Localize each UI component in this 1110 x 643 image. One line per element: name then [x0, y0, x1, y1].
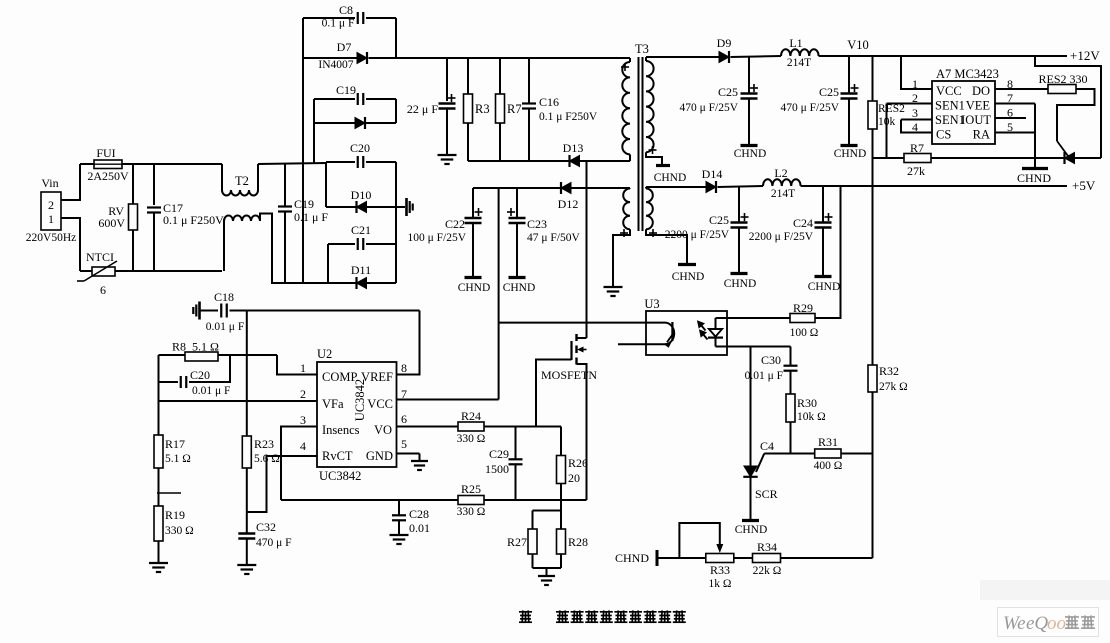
svg-text:2: 2: [48, 198, 54, 212]
svg-text:47 μ F/50V: 47 μ F/50V: [527, 232, 581, 244]
svg-text:470 μ F/25V: 470 μ F/25V: [780, 102, 839, 114]
svg-text:330 Ω: 330 Ω: [165, 525, 194, 537]
svg-text:CHND: CHND: [503, 282, 536, 294]
wire Vin pin1 to bottom rail: [61, 218, 80, 271]
wire R31 row: [764, 453, 814, 455]
svg-text:R24: R24: [461, 409, 481, 423]
svg-text:C28: C28: [409, 507, 429, 521]
svg-text:R33: R33: [710, 563, 730, 577]
light arrows in U3: [698, 322, 707, 340]
svg-text:C16: C16: [539, 95, 559, 109]
svg-text:RES2 330: RES2 330: [1038, 72, 1087, 86]
svg-text:R8 5.1 Ω: R8 5.1 Ω: [172, 340, 219, 354]
diode D14: [706, 182, 716, 193]
svg-text:C20: C20: [350, 141, 370, 155]
svg-text:IN4007: IN4007: [318, 59, 353, 71]
wire vertical C19a loop: [313, 99, 315, 163]
svg-text:R27: R27: [507, 535, 527, 549]
svg-text:27k: 27k: [907, 164, 925, 178]
svg-text:2200 μ F/25V: 2200 μ F/25V: [749, 231, 814, 243]
resistor R26 20: [560, 427, 562, 456]
resistor R25 330: [458, 496, 484, 505]
winding T3 lower-left: [629, 187, 631, 190]
svg-text:D14: D14: [702, 167, 723, 181]
svg-text:D10: D10: [351, 188, 372, 202]
chassis ground T3 upper secondary: [656, 164, 670, 167]
svg-text:R32: R32: [879, 364, 899, 378]
optocoupler U3: [646, 311, 727, 355]
capacitor C20 0.01uF comp: [159, 381, 179, 383]
wire bridge left vertical upper: [325, 162, 327, 207]
svg-text:D13: D13: [563, 141, 584, 155]
svg-text:MOSFETN: MOSFETN: [541, 368, 597, 382]
pin 3 SEN1 wire: [901, 119, 932, 121]
svg-text:CHND: CHND: [615, 551, 649, 565]
resistor RES2 10k: [872, 56, 874, 101]
svg-text:100 μ F/25V: 100 μ F/25V: [407, 232, 466, 244]
wire vertical bus left of ladder: [302, 18, 304, 283]
connector Vin 220V input: [41, 192, 61, 230]
svg-text:10k Ω: 10k Ω: [797, 411, 826, 423]
svg-text:eQ: eQ: [1026, 613, 1048, 634]
diode D13: [568, 155, 570, 167]
varistor RV 600V: [132, 164, 134, 204]
svg-text:330 Ω: 330 Ω: [457, 433, 486, 445]
ground under C32: [237, 564, 256, 566]
diode D12: [560, 182, 562, 194]
diode D7 IN4007: [303, 57, 357, 59]
capacitor C25 2200uF/25V: [738, 186, 740, 222]
wire Insencs pin3 down: [281, 427, 317, 501]
resistor R8 5.1: [159, 354, 186, 356]
resistors R27 R28 parallel: [560, 500, 562, 511]
svg-text:330 Ω: 330 Ω: [457, 506, 486, 518]
svg-text:27k Ω: 27k Ω: [879, 381, 908, 393]
wire C18 to VREF pin8: [397, 311, 420, 375]
resistor R7 27k: [873, 157, 905, 159]
capacitor C21 bridge: [328, 243, 355, 245]
wire R8 to COMP pin1: [277, 355, 317, 375]
capacitor C24 2200uF/25V: [822, 186, 824, 222]
wire left divider vertical: [158, 355, 160, 435]
svg-text:D9: D9: [717, 36, 732, 50]
pin 6 IOUT stub: [995, 117, 1026, 119]
pin 7 VEE wire: [995, 103, 1035, 105]
svg-text:RA: RA: [973, 128, 990, 142]
ground under R27 R28: [546, 568, 548, 576]
capacitor C25 470uF/25V first: [748, 57, 750, 93]
svg-text:R30: R30: [797, 396, 817, 410]
svg-text:C19: C19: [294, 197, 314, 211]
capacitor C25 470uF/25V second: [848, 56, 850, 93]
chassis ground at D10: [396, 206, 405, 208]
winding T3 upper-right secondary: [645, 57, 647, 61]
capacitor 22uF electrolytic: [446, 58, 448, 101]
wire gate drive jog: [536, 360, 572, 427]
svg-text:22 μ F: 22 μ F: [407, 102, 438, 116]
svg-text:U3: U3: [644, 297, 659, 311]
svg-text:VEE: VEE: [966, 99, 991, 113]
svg-text:1: 1: [48, 212, 54, 226]
wire VEE to CHND: [1034, 104, 1036, 168]
capacitor C19a: [314, 98, 355, 100]
resistor R32 27k: [872, 186, 874, 365]
svg-text:6: 6: [1007, 106, 1013, 120]
svg-text:SEN1: SEN1: [935, 99, 965, 113]
svg-text:T3: T3: [635, 42, 649, 56]
svg-text:220V50Hz: 220V50Hz: [26, 232, 76, 244]
svg-text:1k Ω: 1k Ω: [709, 578, 732, 590]
wire SCR cathode to CHND: [750, 477, 752, 519]
wire R29 branch from +5V rail: [815, 186, 841, 318]
wire top rail to T2: [122, 163, 222, 165]
svg-text:CHND: CHND: [1017, 171, 1051, 185]
svg-text:VO: VO: [374, 423, 392, 437]
gate diagonal of crowbar SCR: [1057, 141, 1068, 156]
resistor R23 5.6: [242, 436, 251, 468]
svg-text:T2: T2: [235, 174, 249, 188]
wire RvCT pin4 jog: [247, 456, 317, 512]
diode below C19a: [314, 122, 355, 124]
svg-text:L1: L1: [789, 36, 802, 50]
svg-text:CHND: CHND: [458, 282, 491, 294]
svg-text:GND: GND: [366, 449, 393, 463]
svg-text:22k Ω: 22k Ω: [753, 565, 782, 577]
resistor R24 330: [458, 422, 484, 431]
svg-text:C21: C21: [351, 223, 371, 237]
capacitor C18 0.01uF: [198, 302, 201, 320]
svg-text:R28: R28: [568, 535, 588, 549]
svg-text:DO: DO: [972, 84, 990, 98]
svg-text:214T: 214T: [787, 57, 811, 69]
svg-text:D12: D12: [558, 197, 579, 211]
wire +12V branch to SCR anode: [1035, 56, 1101, 158]
svg-text:6: 6: [100, 283, 106, 297]
svg-text:CHND: CHND: [834, 148, 867, 160]
svg-text:R23: R23: [254, 437, 274, 451]
svg-text:600V: 600V: [98, 216, 125, 230]
capacitor C16 0.1uF250V: [528, 58, 530, 103]
svg-text:0.01 μ F: 0.01 μ F: [192, 385, 230, 397]
svg-text:SCR: SCR: [755, 487, 778, 501]
svg-text:C30: C30: [761, 353, 781, 367]
wire VO pin6 row: [397, 426, 459, 428]
svg-text:Insencs: Insencs: [322, 423, 360, 437]
ground under C28: [390, 534, 409, 536]
capacitor C32 470uF: [238, 532, 255, 535]
svg-text:C23: C23: [527, 217, 547, 231]
svg-text:D7: D7: [337, 40, 352, 54]
svg-text:R19: R19: [165, 508, 185, 522]
svg-text:470 μ F: 470 μ F: [256, 537, 292, 549]
svg-text:214T: 214T: [771, 188, 795, 200]
svg-text:1: 1: [300, 361, 306, 375]
svg-text:5.1 Ω: 5.1 Ω: [165, 453, 191, 465]
capacitor C23 47uF/50V: [516, 188, 518, 218]
resistor R34 22k: [753, 554, 781, 563]
resistor R19 330: [154, 506, 163, 541]
wire R17 to R19 with stub: [158, 468, 160, 506]
fuse FUI 2A250V: [80, 163, 94, 165]
svg-text:R7: R7: [507, 102, 522, 116]
resistor RES2 330: [1048, 85, 1076, 94]
wire +12V rail from T3: [646, 56, 719, 58]
svg-text:C24: C24: [793, 216, 813, 230]
wire VCC pin7 row: [397, 399, 499, 401]
svg-text:8: 8: [1007, 77, 1013, 91]
winding T3 primary upper-left: [629, 58, 631, 62]
svg-text:+12V: +12V: [1070, 48, 1100, 63]
svg-text:R3: R3: [475, 102, 490, 116]
svg-text:VCC: VCC: [936, 84, 962, 98]
wire U3 cathode row: [727, 346, 791, 348]
pin 8 DO wire: [995, 88, 1048, 90]
ground T3 lower-left winding: [604, 286, 623, 288]
chassis ground T3 lower secondary: [678, 263, 696, 266]
svg-text:0.1 μ F: 0.1 μ F: [322, 18, 355, 30]
svg-text:3: 3: [912, 106, 918, 120]
svg-text:5: 5: [401, 437, 407, 451]
pin 1 VCC wire: [901, 56, 932, 89]
op-amp U1 A7 MC3423 supervisor IC: [932, 81, 995, 144]
svg-text:100 Ω: 100 Ω: [790, 327, 819, 339]
svg-text:U2: U2: [317, 347, 332, 361]
svg-text:2: 2: [300, 387, 306, 401]
svg-text:CHND: CHND: [735, 524, 768, 536]
svg-text:VFa: VFa: [322, 397, 344, 411]
svg-text:0.01: 0.01: [409, 521, 430, 535]
svg-text:CHND: CHND: [654, 172, 687, 184]
svg-text:FUI: FUI: [96, 146, 115, 160]
wire bridge right vertical: [395, 162, 397, 283]
svg-text:2: 2: [912, 91, 918, 105]
svg-text:7: 7: [1007, 91, 1013, 105]
svg-text:NTCI: NTCI: [86, 250, 114, 264]
ground at 22uF: [438, 154, 457, 156]
wire T2 bottom to lower rail: [260, 214, 303, 284]
LED of U3: [715, 318, 717, 329]
wire top rail T2 to bridge block: [258, 163, 326, 164]
capacitor C22 100uF/25V: [472, 188, 474, 218]
svg-text:4: 4: [912, 120, 918, 134]
svg-text:C8: C8: [339, 3, 353, 17]
svg-text:1: 1: [912, 77, 918, 91]
caption: [519, 610, 686, 623]
svg-text:R34: R34: [757, 540, 777, 554]
svg-text:C25: C25: [709, 213, 729, 227]
wire GND pin5 to ground: [397, 453, 420, 455]
svg-text:R26: R26: [568, 456, 588, 470]
core T3: [638, 57, 640, 231]
svg-text:1500: 1500: [485, 462, 509, 476]
capacitor C19 0.1uF X-cap: [284, 163, 286, 206]
wire snubber row to T3 primary bottom: [468, 160, 569, 162]
svg-text:Vin: Vin: [41, 176, 58, 190]
wire C18 junction down to R23: [246, 311, 248, 437]
wire MOSFET drain vertical: [586, 161, 588, 338]
svg-text:C32: C32: [256, 520, 276, 534]
gate of SCR: [756, 454, 764, 473]
svg-text:C25: C25: [718, 85, 738, 99]
svg-text:CS: CS: [936, 128, 951, 142]
capacitor C20 bridge: [326, 161, 355, 163]
svg-text:8: 8: [401, 361, 407, 375]
ground under R19: [158, 541, 160, 563]
svg-text:0.1 μ F250V: 0.1 μ F250V: [539, 111, 598, 123]
watermark WeeQoo: [980, 580, 1110, 600]
svg-text:400 Ω: 400 Ω: [814, 460, 843, 472]
resistor R31 400: [815, 449, 841, 458]
wire bridge left vertical lower: [327, 244, 329, 283]
svg-text:R25: R25: [461, 482, 481, 496]
capacitor C29 1500: [515, 427, 517, 460]
svg-text:R29: R29: [793, 301, 813, 315]
wire Vin pin2 to top rail: [61, 164, 80, 200]
inductor L2 214T: [763, 179, 801, 186]
pin 5 RA wire: [995, 132, 1035, 134]
svg-text:5: 5: [1007, 120, 1013, 134]
capacitor C30 0.01uF: [790, 347, 792, 366]
svg-text:2200 μ F/25V: 2200 μ F/25V: [665, 229, 730, 241]
svg-text:V10: V10: [847, 38, 869, 52]
potentiometer R33 1k: [706, 554, 734, 563]
wire bottom row to R33: [657, 557, 706, 559]
svg-text:RvCT: RvCT: [322, 449, 353, 463]
wire R33 to R34: [734, 557, 753, 559]
svg-text:470 μ F/25V: 470 μ F/25V: [679, 102, 738, 114]
diode D11: [303, 282, 356, 284]
svg-text:CHND: CHND: [808, 281, 841, 293]
svg-text:VCC: VCC: [367, 397, 393, 411]
wire SCR anode vertical: [750, 347, 752, 467]
svg-text:2A250V: 2A250V: [87, 169, 129, 183]
svg-text:A7 MC3423: A7 MC3423: [936, 67, 999, 81]
svg-text:D11: D11: [351, 263, 371, 277]
wire RES2 330 to SCR gate: [1057, 89, 1095, 141]
svg-text:UC3842: UC3842: [319, 469, 361, 483]
svg-text:UC3842: UC3842: [353, 379, 367, 421]
inductor L1 214T: [781, 49, 819, 56]
wire D12 row to T3 lower-left winding: [620, 187, 630, 189]
thermistor NTCI: [80, 270, 92, 272]
svg-text:We: We: [1003, 613, 1026, 634]
svg-text:CHND: CHND: [672, 271, 705, 283]
diode D9: [719, 52, 729, 63]
svg-text:C4: C4: [760, 439, 774, 453]
svg-text:R7: R7: [910, 141, 924, 155]
svg-text:R17: R17: [165, 437, 185, 451]
pin 4 CS wire jog: [901, 120, 932, 133]
diode D10: [326, 206, 356, 208]
transistor Q1 MOSFETN: [577, 337, 587, 339]
capacitor C17 0.1uF250V: [153, 164, 155, 205]
capacitor C28 0.01: [398, 500, 400, 515]
capacitor C8 0.1uF: [303, 17, 355, 19]
wire VCC supply vertical: [498, 188, 500, 400]
wire pin2 down to divider tap: [886, 104, 888, 159]
wire D12 row: [473, 187, 561, 189]
svg-text:C29: C29: [489, 447, 509, 461]
resistor R3: [467, 58, 469, 94]
svg-text:6: 6: [401, 412, 407, 426]
wire +5V rail from T3: [646, 186, 706, 188]
svg-text:R31: R31: [818, 435, 838, 449]
svg-text:C20: C20: [190, 368, 210, 382]
phototransistor of U3: [499, 322, 665, 324]
wire R25 row current sense: [281, 499, 458, 501]
svg-text:0.1 μ F250V: 0.1 μ F250V: [163, 213, 224, 227]
wire R23 to C32: [246, 468, 248, 533]
svg-text:C22: C22: [445, 217, 465, 231]
resistor R7 primary: [499, 58, 501, 94]
wire VFa pin2 row: [159, 400, 318, 402]
svg-text:CHND: CHND: [734, 148, 767, 160]
pin 2 SEN1 wire: [887, 103, 933, 105]
winding T3 lower-right secondary: [645, 187, 647, 189]
svg-text:C18: C18: [214, 290, 234, 304]
svg-text:+5V: +5V: [1072, 178, 1096, 193]
svg-text:L2: L2: [774, 166, 787, 180]
svg-text:RES2: RES2: [878, 103, 905, 115]
svg-text:C25: C25: [819, 85, 839, 99]
svg-text:3: 3: [300, 413, 306, 427]
thyristor SCR: [744, 466, 757, 477]
resistor R29 100: [790, 314, 815, 323]
svg-text:0.1 μ F: 0.1 μ F: [294, 210, 328, 224]
resistor R17 5.1: [154, 435, 163, 468]
diode crowbar SCR on R7 row: [1063, 152, 1065, 164]
svg-text:IOUT: IOUT: [961, 113, 991, 127]
resistor R30 10k: [790, 371, 792, 394]
wire T3 primary top: [628, 57, 630, 59]
svg-text:4: 4: [300, 439, 306, 453]
svg-text:0.01 μ F: 0.01 μ F: [206, 321, 244, 333]
svg-text:oo: oo: [1047, 613, 1066, 634]
op-amp U2 UC3842 PWM controller: [317, 362, 397, 467]
svg-text:C19: C19: [336, 83, 356, 97]
svg-text:20: 20: [568, 471, 580, 485]
svg-text:CHND: CHND: [724, 278, 757, 290]
